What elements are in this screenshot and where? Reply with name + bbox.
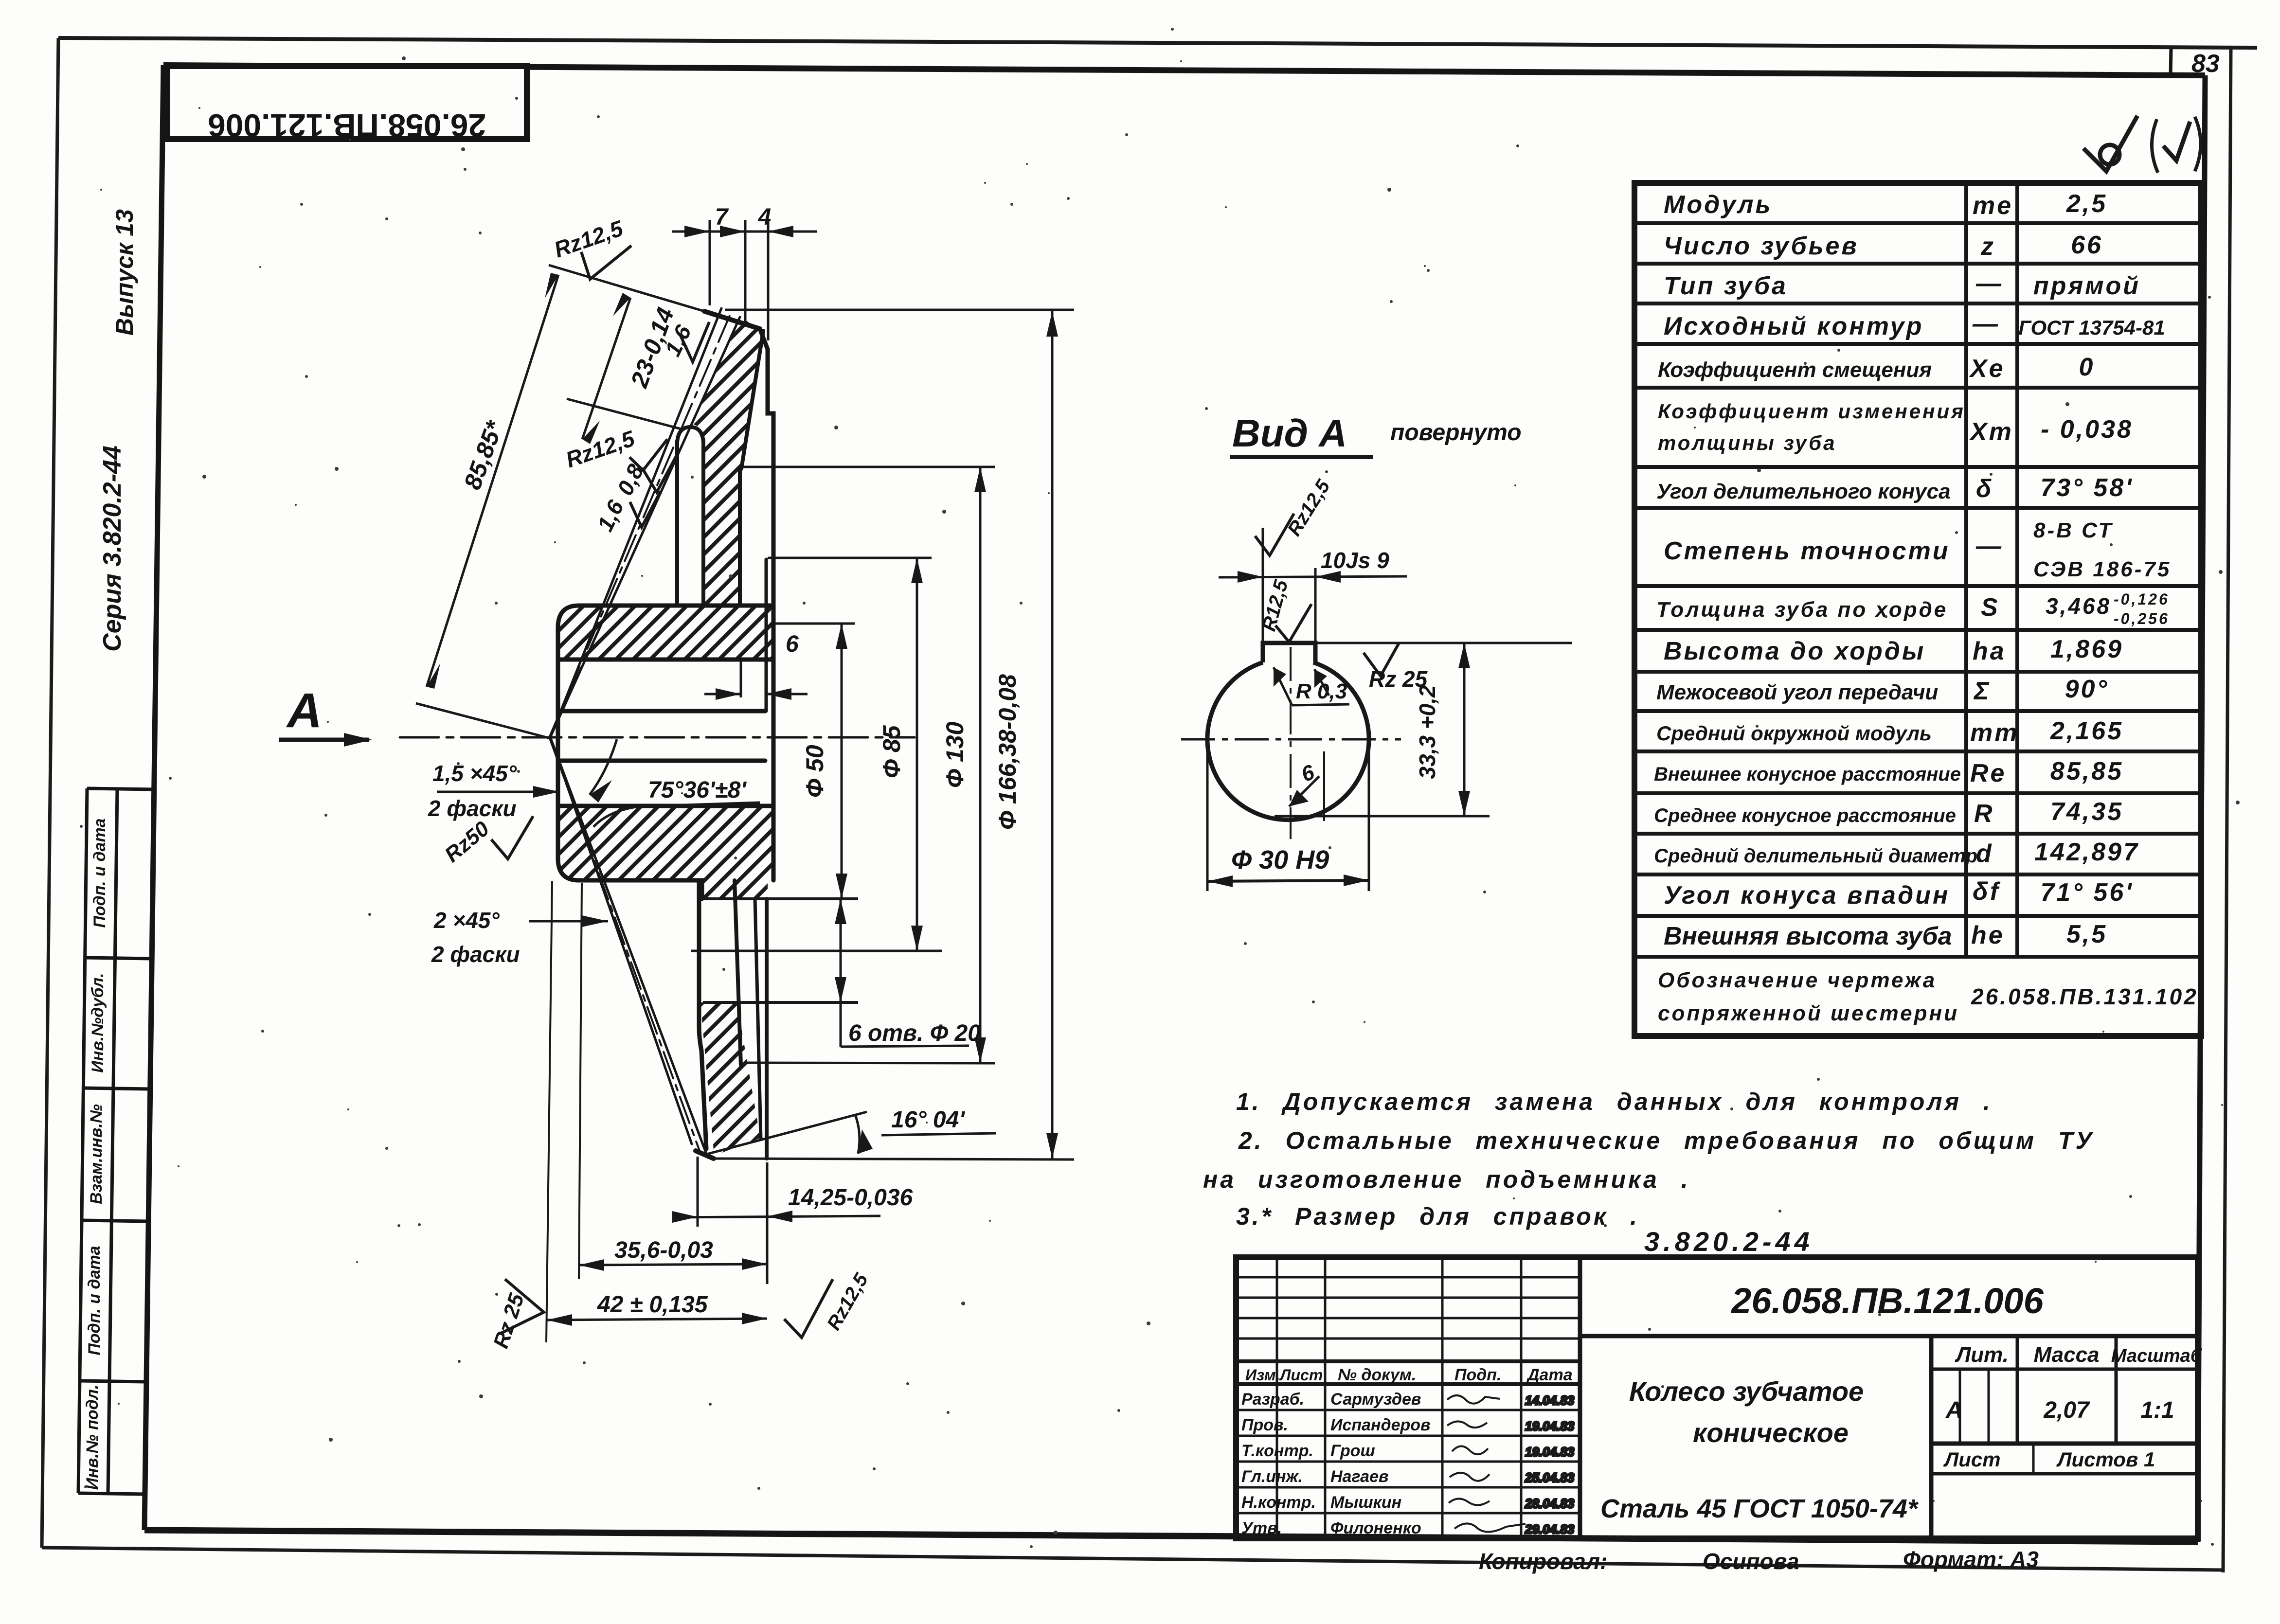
svg-text:Т.контр.: Т.контр. [1241, 1442, 1313, 1460]
svg-text:Исходный контур: Исходный контур [1664, 312, 1923, 340]
svg-text:Инв.№ подл.: Инв.№ подл. [83, 1385, 102, 1490]
svg-text:ГОСТ 13754-81: ГОСТ 13754-81 [2018, 316, 2165, 339]
svg-text:2,07: 2,07 [2043, 1397, 2090, 1423]
svg-text:66: 66 [2071, 231, 2103, 259]
svg-text:Изм.Лист: Изм.Лист [1245, 1366, 1323, 1384]
svg-text:16° 04': 16° 04' [891, 1107, 965, 1133]
svg-text:14,25-0,036: 14,25-0,036 [788, 1185, 913, 1211]
svg-text:3.820.2-44: 3.820.2-44 [1644, 1226, 1813, 1257]
svg-text:Обозначение чертежа: Обозначение чертежа [1658, 968, 1937, 992]
svg-text:1. Допускается замена данн: 1. Допускается замена данных для контрол… [1236, 1088, 1993, 1115]
svg-text:повернуто: повернуто [1390, 420, 1522, 446]
svg-text:6: 6 [786, 631, 799, 657]
hatch top rim [693, 317, 763, 606]
Rz25 [1364, 643, 1399, 676]
svg-text:14.04.83: 14.04.83 [1525, 1393, 1575, 1408]
svg-text:Выпуск 13: Выпуск 13 [111, 209, 138, 336]
dim 6 near hub [740, 660, 742, 697]
dim 6 holes phi20 [703, 1001, 858, 1004]
svg-text:2. Остальные технические: 2. Остальные технические требования по о… [1238, 1127, 2094, 1154]
svg-text:Внешнее конусное расстояние: Внешнее конусное расстояние [1654, 764, 1961, 785]
root cone edge top [741, 331, 763, 469]
svg-text:Гл.инж.: Гл.инж. [1241, 1467, 1303, 1486]
hub inner horizontals [558, 658, 773, 662]
svg-text:Толщина зуба по хорде: Толщина зуба по хорде [1656, 598, 1948, 622]
svg-text:δf: δf [1973, 877, 2001, 906]
dim 85,85 [427, 275, 558, 687]
svg-text:Средний окружной модуль: Средний окружной модуль [1656, 722, 1932, 745]
dim phi30H9 [1206, 741, 1209, 891]
signatures squiggles [1447, 1393, 1575, 1536]
svg-text:сопряженной шестерни: сопряженной шестерни [1658, 1001, 1959, 1025]
svg-text:Листов 1: Листов 1 [2056, 1448, 2155, 1471]
svg-text:Нагаев: Нагаев [1330, 1467, 1389, 1486]
svg-text:28.04.83: 28.04.83 [1525, 1496, 1575, 1511]
hatch lower web and tip [700, 1002, 760, 1156]
gear roughness checks [491, 246, 833, 1338]
svg-text:Н.контр.: Н.контр. [1241, 1493, 1316, 1512]
lower web left edge [699, 883, 706, 1149]
6 chamfer label [1323, 751, 1325, 821]
VIEW A detail [1181, 411, 1572, 891]
dim phi130 [742, 466, 995, 468]
svg-text:he: he [1971, 921, 2005, 949]
bottom tip face [696, 1151, 714, 1159]
ext bottom for 33,3 [1275, 815, 1490, 818]
svg-text:2 ×45°: 2 ×45° [433, 908, 500, 933]
svg-text:Xe: Xe [1969, 355, 2005, 383]
svg-text:Ф 50: Ф 50 [801, 745, 828, 798]
dim 7 / 4 [709, 220, 711, 305]
left margin cells [78, 788, 154, 1494]
svg-text:Серия 3.820.2-44: Серия 3.820.2-44 [98, 446, 126, 652]
svg-text:2,165: 2,165 [2050, 717, 2123, 745]
svg-text:Сармуздев: Сармуздев [1330, 1390, 1421, 1409]
dim phi166 [1051, 311, 1054, 1159]
upper hole slot arc [677, 427, 703, 443]
svg-text:Колесо зубчатое: Колесо зубчатое [1629, 1376, 1864, 1407]
svg-text:25.04.83: 25.04.83 [1525, 1470, 1575, 1485]
bottom strip [1479, 1547, 2039, 1574]
pitch cone lines upper [551, 308, 721, 736]
upper web verticals [675, 441, 679, 606]
svg-text:А: А [286, 683, 322, 738]
notes [1203, 1088, 2094, 1257]
page number box 83 [2171, 49, 2220, 78]
svg-text:73° 58': 73° 58' [2040, 474, 2133, 502]
svg-text:Масштаб: Масштаб [2111, 1346, 2203, 1366]
dim phi50 [773, 623, 855, 625]
svg-text:Угол делительного конуса: Угол делительного конуса [1656, 480, 1951, 503]
svg-text:29.04.83: 29.04.83 [1525, 1522, 1575, 1536]
svg-text:2 фаски: 2 фаски [428, 796, 517, 821]
svg-text:Лист: Лист [1943, 1448, 2000, 1471]
svg-text:Испандеров: Испандеров [1330, 1416, 1431, 1434]
svg-text:75°36'±8': 75°36'±8' [648, 777, 747, 803]
dim 42 [546, 881, 552, 1342]
svg-text:ha: ha [1973, 637, 2006, 665]
Rz12,5 top check [1255, 514, 1294, 555]
svg-text:Подп. и дата: Подп. и дата [85, 1246, 104, 1355]
svg-text:6 отв. Ф 20: 6 отв. Ф 20 [848, 1020, 981, 1046]
svg-text:Коэффициент изменения: Коэффициент изменения [1658, 400, 1965, 423]
hub outline [558, 606, 773, 880]
svg-text:Коэффициент смещения: Коэффициент смещения [1658, 358, 1932, 382]
svg-text:Утв.: Утв. [1241, 1519, 1282, 1537]
svg-text:Инв.№дубл.: Инв.№дубл. [89, 973, 107, 1072]
R12,5 side check [1275, 604, 1311, 642]
svg-text:№ докум.: № докум. [1338, 1366, 1416, 1384]
svg-text:-0,126: -0,126 [2114, 590, 2170, 608]
dim 23-0,14 [582, 298, 630, 439]
svg-text:Вид А: Вид А [1232, 411, 1347, 455]
svg-text:Сталь 45 ГОСТ 1050-74*: Сталь 45 ГОСТ 1050-74* [1600, 1494, 1919, 1523]
svg-text:Ф 85: Ф 85 [878, 725, 905, 778]
surface finish mark top right [2083, 116, 2201, 173]
dim 10Js9 [1219, 576, 1407, 577]
svg-text:90°: 90° [2065, 675, 2109, 703]
svg-text:Подп. и дата: Подп. и дата [90, 818, 109, 928]
ext top for 33,3 [1315, 642, 1572, 644]
svg-text:5,5: 5,5 [2066, 920, 2107, 948]
centerline axis [400, 736, 915, 739]
gear dimension lines [279, 220, 1074, 1342]
keyway wall extensions [1262, 528, 1264, 643]
bore circle with keyway gap [1207, 662, 1369, 820]
tip right edge [760, 329, 773, 606]
svg-text:d: d [1976, 839, 1993, 868]
svg-text:- 0,038: - 0,038 [2041, 415, 2133, 444]
parameter table [1634, 183, 2201, 1036]
svg-text:прямой: прямой [2033, 272, 2140, 300]
svg-text:на изготовление подъемника .: на изготовление подъемника . [1203, 1166, 1690, 1193]
svg-text:Ф 166,38-0,08: Ф 166,38-0,08 [994, 674, 1021, 830]
svg-text:Тип зуба: Тип зуба [1664, 272, 1788, 300]
svg-text:2 фаски: 2 фаски [431, 942, 520, 967]
svg-text:Копировал:: Копировал: [1479, 1549, 1607, 1574]
svg-text:Среднее конусное расстояние: Среднее конусное расстояние [1654, 805, 1956, 826]
svg-text:10Js 9: 10Js 9 [1321, 548, 1389, 573]
lower rim right edges [765, 899, 769, 1159]
svg-text:19.04.83: 19.04.83 [1525, 1419, 1575, 1433]
hatch hub lower block [558, 806, 773, 880]
angle 16 04 [703, 1112, 867, 1155]
ext top face extended [549, 265, 704, 311]
title block [1236, 1257, 2198, 1538]
svg-text:Средний делительный диаметр: Средний делительный диаметр [1654, 845, 1977, 867]
svg-text:42 ± 0,135: 42 ± 0,135 [597, 1292, 708, 1318]
svg-text:Взам.инв.№: Взам.инв.№ [87, 1104, 106, 1204]
svg-text:Σ: Σ [1973, 677, 1991, 705]
svg-text:δ: δ [1976, 475, 1993, 503]
svg-text:Масса: Масса [2033, 1343, 2099, 1367]
svg-text:26.058.ПВ.131.102: 26.058.ПВ.131.102 [1971, 984, 2198, 1009]
svg-text:19.04.83: 19.04.83 [1525, 1445, 1575, 1459]
svg-text:Формат: А3: Формат: А3 [1903, 1547, 2039, 1572]
svg-text:—: — [1975, 269, 2003, 298]
svg-text:Разраб.: Разраб. [1241, 1390, 1304, 1409]
svg-text:-0,256: -0,256 [2114, 610, 2170, 627]
svg-text:mm: mm [1970, 719, 2019, 747]
svg-text:1,869: 1,869 [2050, 635, 2123, 663]
svg-text:71° 56': 71° 56' [2040, 878, 2133, 907]
svg-text:74,35: 74,35 [2050, 798, 2123, 826]
svg-text:—: — [1972, 310, 2000, 338]
svg-text:Грош: Грош [1330, 1442, 1375, 1460]
svg-text:коническое: коническое [1693, 1417, 1849, 1448]
svg-text:Мышкин: Мышкин [1330, 1493, 1401, 1512]
svg-text:Угол конуса впадин: Угол конуса впадин [1664, 881, 1950, 910]
angle 75 36 arc [590, 739, 617, 795]
svg-text:1:1: 1:1 [2140, 1397, 2174, 1423]
pitch cone lines lower [551, 738, 692, 1144]
svg-text:142,897: 142,897 [2034, 838, 2139, 866]
dim 35,6 [579, 883, 582, 1279]
hatch below-hub step block [702, 880, 768, 899]
dim phi85 [768, 557, 932, 559]
dim 14,25 [697, 1157, 699, 1227]
GEAR DRAWING [400, 308, 915, 1159]
leader 1,5x45 [437, 791, 559, 793]
svg-text:me: me [1973, 192, 2013, 220]
svg-text:26.058.ПВ.121.006: 26.058.ПВ.121.006 [1730, 1281, 2044, 1321]
svg-text:33,3 +0,2: 33,3 +0,2 [1415, 685, 1440, 779]
svg-text:z: z [1980, 232, 1995, 261]
svg-text:Число зубьев: Число зубьев [1664, 232, 1859, 260]
leader 2x45 [529, 920, 608, 923]
svg-text:Пров.: Пров. [1241, 1416, 1288, 1434]
svg-text:Xт: Xт [1969, 418, 2013, 446]
svg-text:2,5: 2,5 [2066, 190, 2107, 218]
top-left inverted doc number box [167, 66, 527, 143]
svg-text:Межосевой угол передачи: Межосевой угол передачи [1656, 680, 1938, 704]
svg-text:СЭВ 186-75: СЭВ 186-75 [2033, 557, 2171, 581]
dim 33,3 [1463, 643, 1466, 816]
svg-text:Внешняя высота зуба: Внешняя высота зуба [1664, 922, 1952, 950]
svg-text:Осипова: Осипова [1703, 1549, 1799, 1574]
left signature grid [1236, 1276, 1580, 1279]
hatch hub upper block [558, 606, 773, 660]
center dashes [1181, 738, 1401, 741]
svg-text:толщины зуба: толщины зуба [1658, 431, 1836, 454]
svg-text:Ф 130: Ф 130 [941, 721, 969, 788]
svg-text:Ф 30 Н9: Ф 30 Н9 [1231, 845, 1329, 874]
svg-text:4: 4 [758, 204, 772, 230]
left margin vertical texts [98, 209, 138, 652]
svg-text:R: R [1974, 800, 1994, 828]
svg-text:Модуль: Модуль [1664, 191, 1772, 219]
svg-text:0: 0 [2079, 353, 2095, 381]
svg-text:А: А [1945, 1397, 1963, 1423]
svg-text:1,5 ×45°: 1,5 ×45° [432, 761, 517, 786]
gear text labels [286, 204, 1021, 1351]
svg-text:Re: Re [1970, 759, 2006, 787]
svg-text:—: — [1975, 532, 2003, 560]
keyway slot [1263, 643, 1315, 662]
svg-text:Дата: Дата [1526, 1366, 1573, 1384]
svg-text:Высота до хорды: Высота до хорды [1664, 637, 1925, 665]
svg-text:83: 83 [2191, 50, 2220, 78]
svg-text:3.* Размер для справок .: 3.* Размер для справок . [1236, 1203, 1639, 1230]
svg-text:26.058.ПВ.121.006: 26.058.ПВ.121.006 [208, 107, 486, 143]
ext phi166 bottom [714, 1159, 1074, 1160]
ext phi166 top [725, 309, 1074, 311]
svg-text:35,6-0,03: 35,6-0,03 [614, 1237, 713, 1263]
svg-text:S: S [1981, 593, 2000, 622]
svg-text:85,85: 85,85 [2050, 757, 2123, 785]
step below hub [694, 880, 702, 899]
svg-text:3,468: 3,468 [2046, 593, 2111, 619]
svg-text:Лит.: Лит. [1955, 1343, 2009, 1367]
svg-text:7: 7 [715, 204, 729, 230]
A section arrow [279, 738, 369, 742]
top rim top face [704, 311, 760, 329]
svg-text:Подп.: Подп. [1454, 1366, 1501, 1384]
svg-text:Степень точности: Степень точности [1664, 537, 1950, 565]
svg-text:8-В СТ: 8-В СТ [2033, 518, 2113, 542]
svg-text:Филоненко: Филоненко [1330, 1519, 1421, 1537]
